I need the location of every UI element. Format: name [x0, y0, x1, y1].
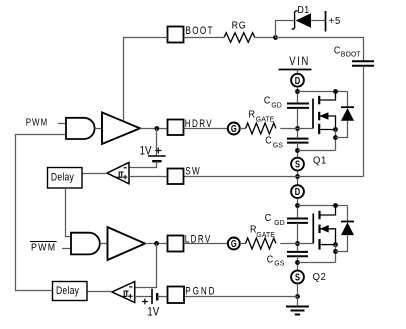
capacitor CGD Q2 [287, 219, 308, 223]
wire comparator to Delay (low side) [87, 291, 112, 293]
svg-text:GD: GD [274, 218, 284, 226]
wire Q2 drain top rail [298, 205, 348, 207]
node Q2 source [295, 260, 300, 265]
comparator (high side) [107, 162, 129, 183]
wire CGD to gate node Q2 [297, 223, 299, 252]
node Q1 drain lead [333, 89, 338, 94]
+5 supply terminal [325, 11, 327, 32]
svg-text:RG: RG [232, 20, 247, 32]
wire D1 to +5 [311, 20, 326, 22]
svg-text:C: C [334, 45, 340, 57]
buffer low-side driver [108, 227, 146, 260]
wire RGATE to Q1 gate [280, 128, 313, 130]
SW pin box [168, 169, 184, 185]
svg-text:Delay: Delay [51, 172, 74, 184]
wire comparator to Delay (high side) [82, 173, 107, 175]
battery 1V (low side) [152, 289, 168, 304]
svg-text:Delay: Delay [56, 285, 79, 297]
wire S Q2 to PGND rail [297, 283, 299, 296]
wire CGS to source rail Q1 [297, 143, 299, 158]
LDRV label [185, 233, 212, 246]
HDRV pin box [168, 120, 184, 136]
node Q1 drain [295, 89, 300, 94]
wire Q1 source branch [335, 130, 337, 151]
svg-text:Q1: Q1 [313, 155, 327, 167]
svg-text:GATE: GATE [256, 115, 275, 123]
wire S Q1 to SW rail [297, 171, 299, 185]
PWM input label [26, 117, 48, 128]
svg-text:C: C [264, 95, 270, 107]
wire CBOOT to SW rail [363, 66, 365, 177]
wire LDRV to gate network [184, 243, 228, 245]
battery 1V (high side) [129, 129, 166, 168]
svg-text:PWM: PWM [31, 242, 56, 254]
svg-text:GS: GS [273, 141, 283, 149]
svg-text:R: R [250, 224, 256, 236]
body diode Q1 [336, 92, 355, 138]
node Q2 drain lead [333, 203, 338, 208]
body diode Q2 [336, 206, 355, 252]
CGS Q1 label [265, 135, 283, 150]
wire Q1 drain top rail [298, 91, 348, 93]
RGATE Q1 label [249, 109, 275, 124]
wire comparator plus to battery [135, 296, 152, 298]
wire G to RGATE Q2 [240, 243, 246, 245]
wire AND to buffer [95, 128, 102, 130]
pin S of Q1 [291, 158, 304, 171]
Q2 reference label [313, 272, 327, 284]
svg-text:PWM: PWM [26, 117, 48, 128]
D1 label [297, 4, 309, 16]
transistor Q1 [313, 92, 336, 135]
CGD Q1 label [264, 95, 282, 110]
wire node up to D1 branch [276, 21, 295, 38]
svg-text:R: R [249, 109, 255, 121]
svg-text:C: C [267, 254, 273, 266]
resistor RG [224, 33, 255, 43]
capacitor CGS Q1 [287, 139, 309, 143]
AND gate (high side) [66, 118, 95, 139]
svg-text:PGND: PGND [185, 286, 216, 299]
wire VIN to drain pin [297, 70, 299, 75]
VIN terminal bar [279, 69, 312, 71]
pin S of Q2 [291, 271, 304, 284]
svg-text:+5: +5 [329, 16, 342, 28]
wire RGATE to Q2 gate [280, 243, 313, 245]
Delay block (low side) [53, 282, 88, 301]
resistor RGATE Q2 [246, 238, 276, 249]
node LDRV [154, 241, 159, 246]
wire CGD to gate node Q1 [297, 108, 299, 139]
wire HDRV to gate network [184, 128, 228, 130]
1V label (high side) [140, 145, 162, 158]
RGATE Q2 label [250, 224, 275, 239]
PGND label [185, 286, 216, 299]
wire BOOT rail to driver [124, 38, 168, 122]
HDRV label [185, 118, 213, 131]
svg-text:VIN: VIN [289, 55, 310, 68]
buffer high-side driver [102, 112, 140, 144]
svg-text:D1: D1 [297, 4, 309, 16]
svg-text:S: S [295, 272, 300, 283]
svg-text:GS: GS [274, 259, 284, 267]
diode D1 (schottky) [292, 11, 311, 29]
node Q2 source lead [333, 242, 338, 247]
svg-text:BOOT: BOOT [186, 25, 214, 38]
PWM-bar input label [30, 242, 57, 254]
svg-text:BOOT: BOOT [341, 50, 361, 58]
wire PWM-bar to AND gate [62, 248, 71, 250]
node SW junction [295, 174, 300, 179]
node Q2 drain [295, 203, 300, 208]
wire CGS to source rail Q2 [297, 256, 299, 270]
svg-text:SW: SW [185, 166, 201, 179]
BOOT label [186, 25, 214, 38]
node Q1 gate [295, 126, 300, 131]
svg-text:C: C [265, 212, 271, 224]
capacitor CGD Q1 [287, 104, 309, 108]
svg-text:D: D [295, 186, 300, 197]
wire Q2 source branch [335, 245, 337, 263]
wire LDRV to comparator minus [135, 244, 157, 288]
resistor RGATE Q1 [246, 123, 276, 134]
svg-text:G: G [231, 238, 237, 249]
capacitor CGS Q2 [287, 252, 308, 256]
wire buffer to LDRV [145, 243, 168, 245]
node Q1 source [295, 148, 300, 153]
svg-text:S: S [295, 159, 300, 170]
Delay block (high side) [48, 168, 83, 189]
CGD Q2 label [265, 212, 285, 227]
wire BOOT box to RG [184, 37, 225, 39]
SW label [185, 166, 201, 179]
CGS Q2 label [267, 254, 285, 268]
svg-text:GATE: GATE [256, 230, 275, 238]
AND gate (low side) [71, 233, 100, 255]
svg-text:D: D [295, 75, 300, 86]
+5 label [329, 16, 342, 28]
svg-text:Q2: Q2 [313, 272, 327, 284]
svg-text:1V: 1V [147, 306, 160, 319]
wire PWM to AND gate [58, 123, 66, 125]
1V label (low side) [142, 299, 160, 319]
node HDRV [154, 126, 159, 131]
svg-text:1V: 1V [140, 145, 153, 158]
wire buffer to HDRV [140, 128, 168, 130]
wire drain rail Q1 [297, 87, 299, 104]
BOOT pin box [168, 27, 184, 43]
node BOOT/CBOOT junction [273, 35, 278, 40]
wire Q2 source rail [298, 262, 336, 264]
wire delay feedback to AND gate [16, 135, 67, 291]
pin G of Q2 [228, 238, 240, 250]
CBOOT label [334, 45, 361, 59]
pin D of Q1 [291, 74, 304, 87]
pin D of Q2 [291, 185, 304, 198]
node Q1 source lead [333, 127, 338, 132]
node PGND junction [295, 294, 300, 299]
LDRV pin box [168, 236, 184, 252]
wire node to CBOOT [276, 38, 364, 62]
wire G to RGATE [240, 128, 246, 130]
node Q2 body diode anode [333, 249, 338, 254]
pin G of Q1 [228, 123, 240, 135]
node Q2 gate [295, 241, 300, 246]
comparator (low side) [112, 282, 135, 303]
wire Q1 source rail [298, 150, 336, 152]
ground [286, 297, 309, 315]
Q1 reference label [313, 155, 327, 167]
wire AND to buffer (low side) [100, 243, 108, 245]
transistor Q2 [313, 206, 335, 250]
capacitor CBOOT [352, 61, 374, 66]
svg-text:G: G [231, 123, 237, 134]
wire PGND rail [184, 296, 298, 298]
VIN label [289, 55, 310, 68]
svg-text:C: C [265, 135, 271, 147]
wire SW to comparator plus [129, 176, 168, 178]
wire D Q2 to drain rail [297, 198, 299, 218]
node Q1 body diode anode [333, 135, 338, 140]
PGND pin box [168, 287, 185, 304]
wire SW rail [184, 176, 364, 178]
RG value label [232, 20, 247, 32]
wire RG to node [255, 37, 276, 39]
wire Delay to low-side AND [66, 188, 72, 237]
svg-text:GD: GD [271, 101, 281, 109]
